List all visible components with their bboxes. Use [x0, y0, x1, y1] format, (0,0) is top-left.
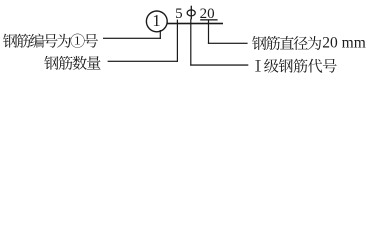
svg-text:20 mm: 20 mm: [322, 34, 366, 51]
svg-text:20: 20: [200, 6, 215, 22]
svg-text:1: 1: [152, 11, 160, 30]
svg-text:5: 5: [175, 6, 183, 22]
